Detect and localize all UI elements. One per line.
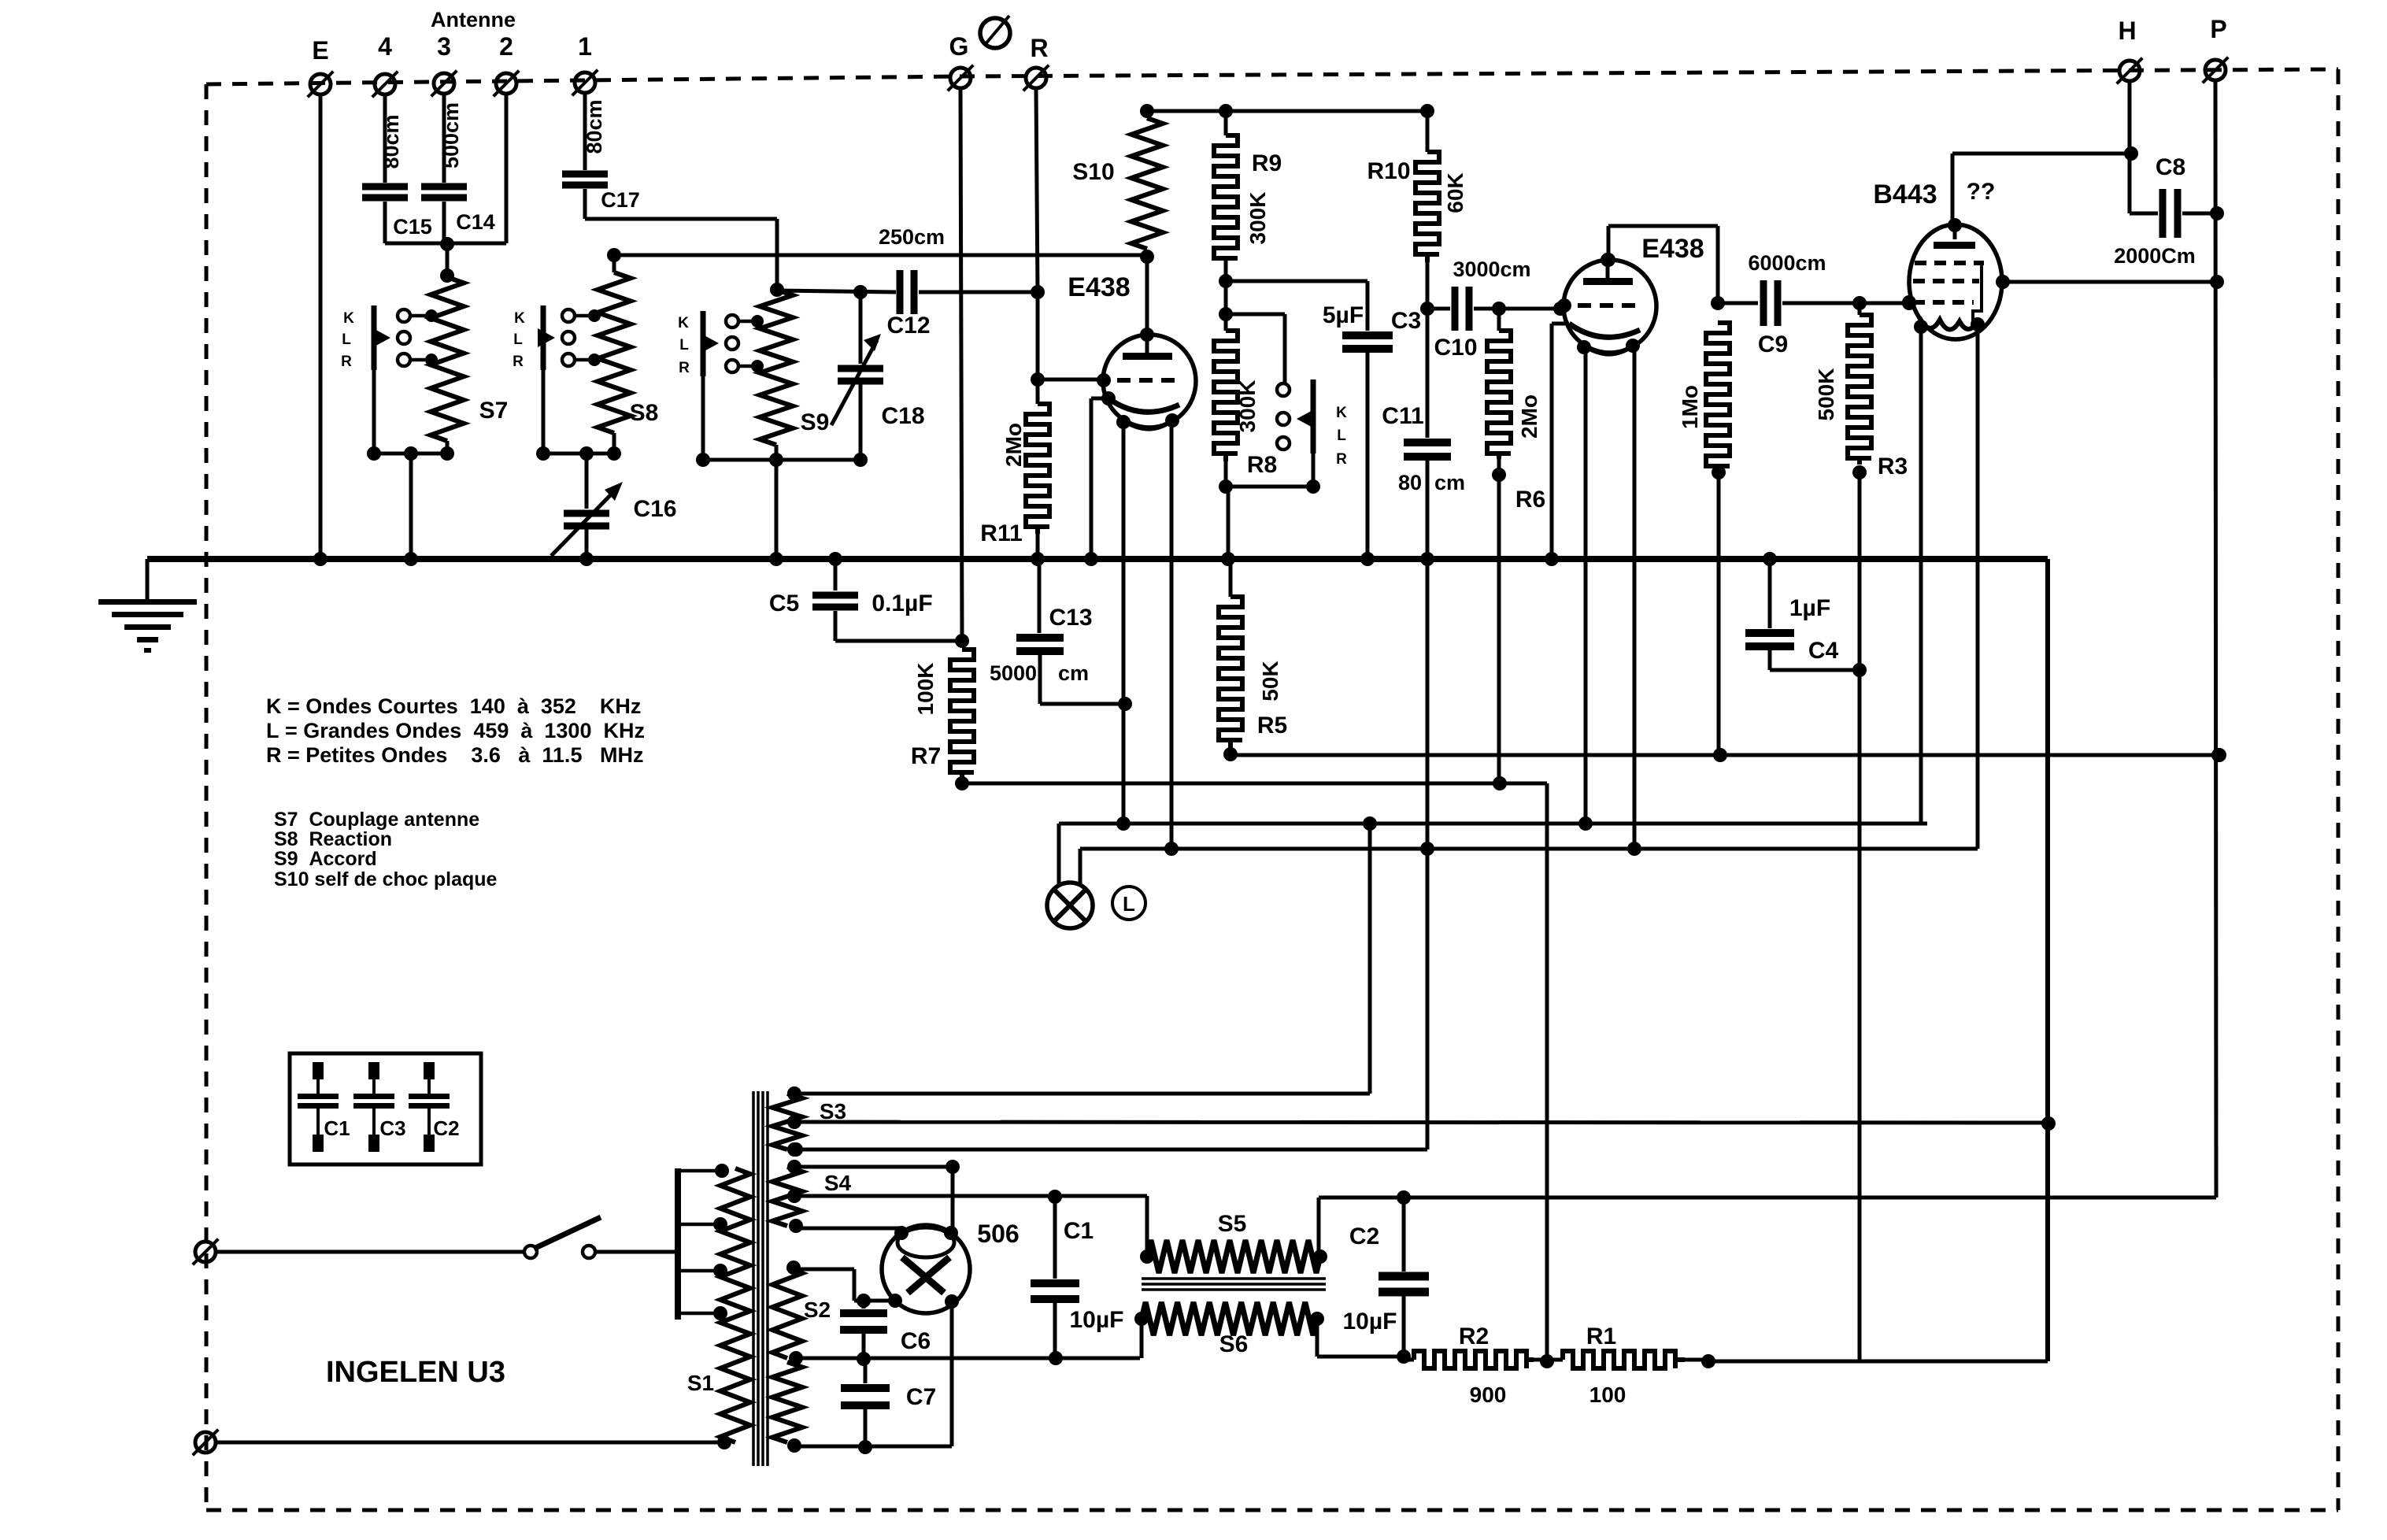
- svg-text:R1: R1: [1586, 1323, 1616, 1349]
- trimmer box: [290, 1053, 481, 1164]
- coil S9: [760, 290, 829, 445]
- svg-text:1Mo: 1Mo: [1678, 385, 1702, 429]
- svg-text:S7: S7: [479, 398, 509, 424]
- svg-text:C1: C1: [324, 1116, 350, 1140]
- svg-text:500K: 500K: [1814, 368, 1838, 421]
- wire R5 bottom line: [1231, 748, 2226, 762]
- capacitor C8 2000Cm: [2114, 154, 2224, 268]
- svg-text:80cm: 80cm: [583, 99, 606, 154]
- tube V3 B443: [1873, 179, 2010, 339]
- svg-text:3: 3: [437, 32, 451, 61]
- svg-text:C8: C8: [2156, 154, 2185, 180]
- svg-text:C12: C12: [886, 313, 930, 339]
- svg-text:50K: 50K: [1258, 661, 1282, 701]
- wire S3 tap middle: [794, 1116, 2056, 1131]
- svg-text:R9: R9: [1252, 150, 1282, 176]
- wire R8 bottom: [1219, 453, 1320, 566]
- wire grid B443: [1860, 296, 1916, 310]
- secondary winding low: [772, 1362, 802, 1453]
- wire S4 tap c: [796, 1227, 902, 1231]
- wire tube1 filament legs: [1116, 421, 1179, 856]
- svg-text:S8: S8: [630, 400, 659, 426]
- svg-text:500cm: 500cm: [439, 102, 463, 168]
- wire B443 filament legs: [1921, 324, 1978, 849]
- svg-text:R5: R5: [1257, 713, 1287, 739]
- capacitor C5: [769, 552, 962, 641]
- svg-text:C13: C13: [1049, 605, 1092, 631]
- svg-text:4: 4: [378, 32, 392, 61]
- legend waveband L: [266, 719, 645, 742]
- selector S K L R (detector): [1277, 379, 1347, 468]
- resistor R11 2Mo: [980, 379, 1049, 566]
- svg-text:K: K: [343, 310, 354, 327]
- wire R1 to bus drop: [1708, 1360, 2048, 1364]
- svg-text:S6: S6: [1219, 1331, 1249, 1357]
- wire S7 bottom: [367, 368, 454, 566]
- terminal E: [308, 36, 334, 97]
- svg-text:900: 900: [1470, 1383, 1507, 1407]
- terminal R: [1023, 34, 1049, 91]
- label Antenne: [431, 8, 516, 31]
- svg-text:80: 80: [1398, 471, 1422, 494]
- resistor R1 100: [1547, 1323, 1715, 1407]
- svg-text:C2: C2: [433, 1116, 459, 1140]
- secondary winding S3: [772, 1087, 846, 1157]
- svg-text:R10: R10: [1367, 158, 1410, 184]
- wire S10 to tube1 anode: [1145, 257, 1149, 335]
- wire lamp left: [1059, 816, 1927, 885]
- capacitor C2 10uF: [1343, 1198, 1429, 1357]
- capacitor C18 (variable): [831, 285, 925, 460]
- dashed chassis border (top): [206, 69, 2338, 84]
- terminal 3: [431, 32, 457, 96]
- legend S7: [274, 809, 479, 831]
- wire mains lower: [216, 1435, 731, 1449]
- transformer core: [753, 1091, 768, 1466]
- dashed chassis border (right): [2337, 69, 2341, 1510]
- wire HT top line: [1147, 104, 1434, 118]
- wire S8 bottom: [536, 368, 621, 461]
- svg-text:10µF: 10µF: [1070, 1307, 1124, 1333]
- wire grid tube1: [1038, 378, 1104, 382]
- svg-text:506: 506: [977, 1220, 1019, 1248]
- meter dial: [980, 16, 1010, 48]
- svg-text:C3: C3: [1391, 308, 1421, 334]
- capacitor C6: [840, 1301, 931, 1359]
- wire tube2 filament legs: [1578, 346, 1641, 856]
- svg-text:C2: C2: [1349, 1223, 1379, 1249]
- svg-text:L = Grandes Ondes 459 à 130: L = Grandes Ondes 459 à 1300 KHz: [266, 719, 645, 742]
- trimmer C2: [409, 1062, 460, 1152]
- wire S2 top to 506: [794, 1269, 895, 1308]
- svg-text:6000cm: 6000cm: [1748, 251, 1826, 275]
- wire mains upper: [216, 1250, 524, 1254]
- wire S5 right riser: [1317, 1198, 1321, 1257]
- svg-text:C18: C18: [881, 403, 924, 429]
- resistor R5 50K: [1219, 561, 1287, 761]
- wire H down: [2128, 82, 2132, 213]
- svg-text:E438: E438: [1068, 272, 1130, 302]
- svg-text:C5: C5: [769, 590, 799, 616]
- svg-text:R = Petites Ondes 3.6 à: R = Petites Ondes 3.6 à 11.5 MHz: [266, 743, 643, 767]
- svg-text:K = Ondes Courtes 140 à 352: K = Ondes Courtes 140 à 352 KHz: [266, 694, 641, 718]
- choke S5: [1140, 1211, 1327, 1273]
- svg-text:C14: C14: [456, 210, 495, 234]
- svg-text:R7: R7: [911, 743, 941, 769]
- capacitor C4 1uF: [1745, 552, 1860, 670]
- svg-text:E438: E438: [1641, 234, 1704, 264]
- svg-text:R6: R6: [1515, 487, 1545, 513]
- wire R9 node down: [1219, 281, 1285, 383]
- svg-text:R2: R2: [1459, 1323, 1489, 1349]
- legend S10: [274, 868, 498, 890]
- legend S8: [274, 828, 392, 850]
- svg-text:3000cm: 3000cm: [1453, 257, 1530, 281]
- wire R7 bottom line: [955, 776, 1547, 1361]
- wire P down: [2211, 81, 2226, 1198]
- selector S9 K L R: [678, 311, 764, 376]
- wire lamp right: [1080, 849, 1978, 885]
- capacitor C1 10uF: [1031, 1197, 1123, 1358]
- svg-text:300K: 300K: [1235, 380, 1260, 433]
- svg-text:S4: S4: [824, 1171, 852, 1195]
- wire filament drop a: [787, 824, 1370, 1101]
- wire terminal 1 down: [583, 93, 587, 170]
- svg-text:S7 Couplage antenne: S7 Couplage antenne: [274, 809, 479, 831]
- svg-text:S9: S9: [801, 409, 830, 435]
- svg-text:C3: C3: [379, 1116, 405, 1140]
- lamp L: [1047, 883, 1145, 928]
- svg-text:R: R: [341, 354, 352, 370]
- resistor R10 60K: [1367, 111, 1467, 316]
- legend waveband R: [266, 743, 643, 767]
- terminal H: [2117, 17, 2143, 83]
- svg-text:100: 100: [1589, 1383, 1626, 1407]
- svg-text:C4: C4: [1808, 638, 1839, 664]
- selector S8 K L R: [513, 305, 601, 370]
- capacitor C15: [362, 114, 432, 239]
- capacitor C3 5uF: [1323, 281, 1421, 566]
- wire B443 anode to P: [2003, 275, 2224, 289]
- mains shield bar: [675, 1168, 681, 1320]
- svg-text:S9 Accord: S9 Accord: [274, 848, 377, 870]
- svg-text:R: R: [513, 354, 524, 370]
- svg-text:250cm: 250cm: [879, 225, 945, 249]
- svg-text:S10 self de choc plaque: S10 self de choc plaque: [274, 868, 498, 890]
- svg-text:R: R: [1336, 451, 1347, 468]
- choke S6: [1134, 1302, 1324, 1357]
- svg-text:E: E: [312, 36, 328, 65]
- wire R down: [1031, 89, 1045, 387]
- svg-text:B443: B443: [1873, 180, 1937, 209]
- wire S2 bottom line: [796, 1319, 1142, 1366]
- wire 506 leg down: [794, 1301, 952, 1454]
- wire S6 right: [1317, 1319, 1411, 1364]
- svg-text:2000Cm: 2000Cm: [2114, 244, 2196, 268]
- svg-text:C16: C16: [633, 496, 676, 522]
- trimmer C3: [353, 1062, 406, 1152]
- svg-text:R3: R3: [1878, 453, 1908, 479]
- capacitor C17: [562, 99, 640, 212]
- svg-text:K: K: [678, 315, 689, 331]
- svg-text:C10: C10: [1434, 335, 1477, 361]
- svg-text:Antenne: Antenne: [431, 8, 516, 31]
- svg-text:S10: S10: [1072, 159, 1114, 185]
- coil S7: [431, 277, 508, 441]
- wire R9 bottom to C3: [1226, 279, 1367, 283]
- svg-text:5µF: 5µF: [1323, 302, 1364, 328]
- ground bus: [147, 556, 2048, 562]
- svg-text:INGELEN U3: INGELEN U3: [326, 1356, 505, 1389]
- svg-text:2Mo: 2Mo: [1001, 423, 1026, 467]
- wire S4 tap b: [796, 1190, 1147, 1257]
- resistor R9 300K: [1214, 111, 1282, 288]
- terminal P: [2203, 15, 2229, 83]
- capacitor C14: [421, 102, 495, 234]
- rectifier tube 506: [882, 1220, 1020, 1313]
- svg-text:L: L: [679, 337, 689, 354]
- wire S4 tap a: [794, 1160, 960, 1174]
- wire bus drop: [2045, 559, 2050, 1361]
- svg-text:5000: 5000: [990, 661, 1037, 685]
- dashed chassis border (bottom): [206, 1509, 2338, 1512]
- svg-text:G: G: [949, 32, 969, 61]
- svg-text:0.1µF: 0.1µF: [872, 590, 932, 616]
- legend S9: [274, 848, 377, 870]
- svg-text:60K: 60K: [1443, 172, 1467, 213]
- svg-text:H: H: [2118, 17, 2136, 45]
- svg-text:C11: C11: [1382, 403, 1423, 429]
- label INGELEN U3: [326, 1356, 505, 1389]
- svg-text:P: P: [2210, 15, 2226, 43]
- wire C17 to S9: [585, 189, 784, 297]
- secondary winding S2: [772, 1261, 831, 1365]
- wire 506 anode drop: [951, 1167, 955, 1228]
- wire terminal 3 down: [442, 94, 446, 183]
- svg-text:C9: C9: [1758, 331, 1788, 357]
- svg-text:R: R: [679, 360, 690, 376]
- capacitor C12: [777, 270, 1038, 339]
- svg-text:cm: cm: [1058, 661, 1089, 685]
- tube V1 E438: [1068, 272, 1196, 429]
- wire B443 top cap: [1952, 146, 2138, 223]
- svg-text:S3: S3: [820, 1099, 846, 1124]
- svg-text:2Mo: 2Mo: [1517, 394, 1541, 439]
- choke core: [1142, 1279, 1326, 1290]
- svg-text:K: K: [1336, 405, 1347, 421]
- wire 250cm line: [607, 225, 1147, 262]
- transformer primary S1: [687, 1168, 750, 1442]
- svg-text:L: L: [513, 331, 523, 348]
- selector S7 K L R: [341, 305, 438, 370]
- wire C15 bottom: [383, 202, 387, 243]
- svg-text:cm: cm: [1434, 471, 1465, 494]
- tube V2 E438: [1557, 234, 1704, 354]
- svg-text:R11: R11: [980, 520, 1022, 546]
- choke S10: [1072, 104, 1163, 264]
- secondary winding S4: [772, 1160, 852, 1233]
- wire G down: [955, 89, 969, 648]
- capacitor C10 3000cm: [1427, 257, 1567, 361]
- wire S9 bottom: [696, 374, 868, 566]
- capacitor C13: [990, 562, 1132, 711]
- mains terminal upper: [193, 1239, 219, 1265]
- svg-text:S5: S5: [1218, 1211, 1247, 1237]
- wire filament drop b: [789, 849, 1427, 1157]
- terminal G: [948, 32, 974, 91]
- svg-text:2: 2: [499, 32, 513, 61]
- capacitor C9 6000cm: [1718, 251, 1867, 357]
- svg-text:1: 1: [578, 32, 592, 61]
- terminal 1: [572, 32, 598, 95]
- coil S8: [598, 255, 658, 433]
- wire tube2 cathode to bus: [1545, 324, 1569, 566]
- ground symbol: [98, 559, 197, 653]
- wire C14 bottom: [442, 202, 446, 243]
- svg-text:??: ??: [1967, 179, 1996, 205]
- wire antenna node: [385, 94, 506, 283]
- resistor R7 100K: [911, 650, 974, 778]
- svg-text:R8: R8: [1247, 452, 1277, 478]
- resistor R3 500K: [1814, 303, 1908, 1361]
- capacitor C7: [841, 1359, 936, 1447]
- svg-text:K: K: [514, 310, 525, 327]
- svg-text:R: R: [1030, 34, 1048, 62]
- svg-text:1µF: 1µF: [1789, 595, 1830, 621]
- svg-text:L: L: [1123, 892, 1135, 916]
- svg-text:S1: S1: [687, 1371, 714, 1395]
- svg-text:C6: C6: [901, 1328, 931, 1354]
- svg-text:300K: 300K: [1245, 192, 1270, 245]
- wire tube1 cathode to bus: [1084, 391, 1116, 566]
- primary taps: [679, 1164, 729, 1320]
- capacitor C11 80cm: [1382, 312, 1465, 856]
- svg-text:S2: S2: [804, 1298, 831, 1322]
- mains terminal lower: [193, 1430, 219, 1456]
- svg-text:C15: C15: [393, 215, 432, 239]
- wire HT line to P: [1319, 1190, 2216, 1205]
- capacitor C16 (variable): [551, 453, 677, 566]
- svg-text:C17: C17: [601, 188, 640, 212]
- svg-text:100K: 100K: [913, 663, 938, 716]
- svg-text:C7: C7: [906, 1384, 936, 1410]
- terminal 2: [494, 32, 520, 96]
- wire tube2 anode feed: [1601, 226, 1725, 310]
- svg-text:80cm: 80cm: [379, 114, 403, 168]
- legend waveband K: [266, 694, 641, 718]
- wire E to bus: [313, 94, 328, 566]
- svg-text:L: L: [1337, 428, 1346, 444]
- resistor R8 300K: [1214, 331, 1277, 487]
- wire terminal 4 down: [383, 94, 387, 183]
- svg-text:L: L: [342, 331, 351, 348]
- switch: [524, 1217, 675, 1258]
- dashed chassis border (left): [205, 84, 209, 1510]
- terminal 4: [372, 32, 398, 97]
- resistor 1Mo: [1678, 323, 1730, 755]
- trimmer C1: [298, 1062, 350, 1152]
- svg-text:S8 Reaction: S8 Reaction: [274, 828, 392, 850]
- svg-text:10µF: 10µF: [1343, 1309, 1397, 1335]
- svg-text:C1: C1: [1064, 1218, 1094, 1244]
- resistor R2 900: [1404, 1323, 1554, 1407]
- resistor R6 2Mo: [1487, 309, 1545, 782]
